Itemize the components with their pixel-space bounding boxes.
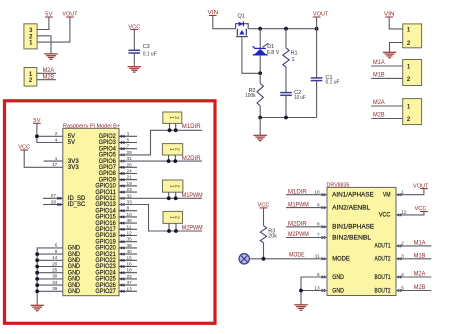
GPIO pin numbers bbox=[127, 131, 133, 291]
svg-text:GND: GND bbox=[68, 264, 81, 270]
svg-text:24: 24 bbox=[127, 169, 133, 174]
svg-text:8: 8 bbox=[317, 222, 320, 227]
svg-text:GND: GND bbox=[68, 277, 81, 283]
svg-text:GPIO13: GPIO13 bbox=[95, 202, 116, 208]
svg-text:3: 3 bbox=[401, 254, 404, 259]
svg-text:GPIO6: GPIO6 bbox=[99, 159, 117, 165]
svg-text:1: 1 bbox=[292, 57, 295, 63]
ground under VIN connector bbox=[383, 51, 397, 53]
svg-text:31: 31 bbox=[127, 156, 133, 161]
svg-text:16: 16 bbox=[127, 262, 133, 267]
wire GND pin stub bbox=[37, 266, 63, 268]
node junction bottom rail at R2 bbox=[258, 116, 262, 120]
svg-text:37: 37 bbox=[127, 280, 133, 285]
svg-text:MODE: MODE bbox=[289, 252, 305, 259]
wire connector pin 2 to ground bbox=[390, 43, 403, 53]
svg-text:25: 25 bbox=[52, 268, 58, 273]
transistor Q1 (P-MOSFET) bbox=[236, 21, 249, 36]
node junction GND bus bbox=[35, 277, 39, 281]
wire GND pin stub bbox=[37, 290, 63, 292]
node junction top rail at C1/VOUT bbox=[315, 27, 319, 31]
svg-text:AIN1/APHASE: AIN1/APHASE bbox=[332, 193, 374, 199]
svg-text:ID_SC: ID_SC bbox=[68, 202, 86, 208]
svg-text:15: 15 bbox=[127, 255, 133, 260]
capacitor C1 0.1uF bbox=[316, 29, 318, 78]
svg-text:6: 6 bbox=[55, 243, 58, 248]
svg-text:13: 13 bbox=[314, 285, 320, 290]
svg-text:1: 1 bbox=[168, 216, 174, 219]
svg-text:C3: C3 bbox=[143, 44, 150, 50]
node junction R3/MODE bbox=[262, 257, 266, 261]
svg-text:M1B: M1B bbox=[373, 71, 385, 78]
svg-text:GND: GND bbox=[68, 258, 81, 264]
svg-text:30: 30 bbox=[52, 274, 58, 279]
svg-text:27: 27 bbox=[51, 193, 57, 198]
svg-text:GPIO22: GPIO22 bbox=[95, 258, 116, 264]
jumper M1DIR pin wires bbox=[169, 123, 171, 130]
svg-text:AOUT1: AOUT1 bbox=[375, 244, 392, 250]
svg-text:GPIO9: GPIO9 bbox=[99, 177, 117, 183]
svg-text:M2DIR: M2DIR bbox=[182, 155, 201, 162]
svg-text:10: 10 bbox=[314, 190, 320, 195]
svg-text:14: 14 bbox=[52, 255, 58, 260]
svg-text:11: 11 bbox=[315, 254, 320, 259]
svg-text:M1A: M1A bbox=[414, 240, 426, 247]
wire net M2A to connector bbox=[371, 105, 403, 107]
ground under C3 bbox=[128, 66, 142, 68]
svg-text:5V: 5V bbox=[68, 134, 75, 140]
svg-text:2: 2 bbox=[174, 216, 180, 219]
svg-text:GPIO3: GPIO3 bbox=[99, 140, 117, 146]
GPIO pin stubs with direction arrows bbox=[119, 135, 137, 293]
svg-text:9: 9 bbox=[55, 249, 58, 254]
DRV8835 left pin numbers bbox=[314, 190, 320, 291]
op-amp U1 DRV8835 motor driver IC bbox=[327, 187, 396, 295]
svg-text:5: 5 bbox=[127, 138, 130, 143]
svg-text:GPIO21: GPIO21 bbox=[95, 252, 116, 258]
wire Q1 gate bbox=[242, 37, 260, 73]
wire GPIO5 to M1DIR bbox=[119, 130, 202, 155]
svg-text:1: 1 bbox=[168, 185, 174, 188]
svg-text:M1DIR: M1DIR bbox=[288, 188, 307, 195]
svg-text:GPIO23: GPIO23 bbox=[95, 264, 116, 270]
svg-text:MODE: MODE bbox=[332, 257, 350, 263]
wire 5V to pins 2 and 4 bbox=[37, 123, 63, 142]
svg-text:GPIO10: GPIO10 bbox=[95, 184, 116, 190]
node junction gate/D1/R2 bbox=[258, 71, 262, 75]
wire MODE net bbox=[249, 258, 327, 260]
svg-text:9: 9 bbox=[317, 202, 320, 207]
jumper M2DIR pin wires bbox=[168, 155, 170, 161]
svg-text:GPIO14: GPIO14 bbox=[95, 208, 116, 214]
svg-text:BIN1/BPHASE: BIN1/BPHASE bbox=[332, 225, 374, 231]
wire GPIO13 to M2PWM bbox=[119, 205, 202, 232]
svg-text:21: 21 bbox=[127, 175, 133, 180]
svg-text:40: 40 bbox=[127, 249, 133, 254]
svg-text:5: 5 bbox=[401, 285, 404, 290]
wire net M1DIR into DRV8835 bbox=[286, 194, 327, 196]
svg-text:M1PWM: M1PWM bbox=[288, 202, 309, 209]
wire Q1 drain rail to VOUT bbox=[248, 28, 316, 30]
wire DRV8835 GND pins to ground bbox=[301, 277, 327, 305]
svg-text:2: 2 bbox=[173, 116, 179, 119]
svg-text:GPIO8: GPIO8 bbox=[99, 171, 117, 177]
DRV8835 right pin names bbox=[375, 193, 392, 295]
svg-text:GND: GND bbox=[332, 288, 344, 294]
svg-text:M2B: M2B bbox=[43, 74, 55, 81]
svg-text:VCC: VCC bbox=[379, 213, 391, 219]
svg-text:3V3: 3V3 bbox=[68, 165, 80, 171]
DRV8835 right pin numbers bbox=[401, 190, 407, 291]
svg-text:AIN2/AENBL: AIN2/AENBL bbox=[332, 205, 371, 211]
RPi left pin names bbox=[68, 134, 86, 295]
svg-text:GPIO17: GPIO17 bbox=[95, 227, 116, 233]
wire bottom rail of Q1 circuit bbox=[260, 117, 316, 119]
svg-text:M1PWM: M1PWM bbox=[182, 192, 203, 199]
svg-text:18: 18 bbox=[127, 268, 133, 273]
svg-text:13: 13 bbox=[127, 286, 133, 291]
wire GND pin stub bbox=[37, 259, 63, 261]
svg-text:Raspberry Pi Model B+: Raspberry Pi Model B+ bbox=[63, 123, 121, 129]
node junction top rail at D1 bbox=[258, 27, 262, 31]
node junction GND bus bbox=[35, 271, 39, 275]
svg-text:11: 11 bbox=[127, 224, 132, 229]
svg-text:20: 20 bbox=[52, 261, 58, 266]
svg-text:M2A: M2A bbox=[373, 99, 385, 106]
diode D1 zener 6.8V bbox=[253, 29, 269, 74]
ground under GND bus bbox=[30, 304, 44, 306]
svg-text:M2A: M2A bbox=[414, 271, 426, 278]
svg-text:4: 4 bbox=[55, 137, 58, 142]
wire VCC to C3 bbox=[133, 30, 135, 51]
red highlight box around Raspberry Pi section bbox=[5, 101, 216, 323]
svg-text:GPIO5: GPIO5 bbox=[99, 153, 117, 159]
svg-text:GPIO2: GPIO2 bbox=[99, 134, 117, 140]
svg-text:GND: GND bbox=[68, 252, 81, 258]
node junction top rail at R1 bbox=[284, 27, 288, 31]
svg-text:39: 39 bbox=[52, 286, 58, 291]
svg-text:GPIO16: GPIO16 bbox=[95, 221, 116, 227]
svg-text:GPIO7: GPIO7 bbox=[99, 165, 117, 171]
test point circle-X on MODE net bbox=[239, 254, 249, 264]
wire net M1B to connector bbox=[371, 77, 403, 79]
jumper block M2DIR bbox=[162, 144, 182, 155]
svg-text:GPIO24: GPIO24 bbox=[95, 270, 116, 276]
svg-text:M2B: M2B bbox=[414, 284, 426, 291]
wire pin 2 to ground bbox=[37, 36, 51, 54]
node junctions under jumper M1PWM bbox=[167, 196, 171, 200]
svg-text:GPIO15: GPIO15 bbox=[95, 215, 116, 221]
wire net M1B from DRV8835 bbox=[396, 258, 431, 260]
wire VCC to pin 17 bbox=[24, 150, 63, 167]
svg-text:BOUT2: BOUT2 bbox=[375, 288, 392, 294]
svg-text:GND: GND bbox=[332, 275, 344, 281]
jumper M1PWM pin wires bbox=[168, 192, 170, 198]
ground under 3-pin connector bbox=[44, 53, 58, 55]
wire net M1PWM into DRV8835 bbox=[286, 207, 327, 209]
svg-text:R1: R1 bbox=[291, 50, 298, 56]
node junction bottom rail at C2 bbox=[284, 116, 288, 120]
svg-text:2: 2 bbox=[401, 241, 404, 246]
wire C3 to ground bbox=[133, 53, 135, 66]
connector M2 output header (left) bbox=[24, 68, 37, 87]
svg-text:6: 6 bbox=[317, 272, 320, 277]
svg-text:4: 4 bbox=[401, 272, 404, 277]
svg-text:GND: GND bbox=[68, 289, 81, 295]
wire VM to VOUT bbox=[396, 189, 424, 195]
node junction GND bus bbox=[35, 289, 39, 293]
jumper block M1PWM bbox=[163, 180, 183, 192]
RPi GND pin numbers bbox=[52, 243, 58, 291]
svg-text:23: 23 bbox=[127, 187, 133, 192]
svg-text:GPIO11: GPIO11 bbox=[95, 190, 116, 196]
svg-text:VM: VM bbox=[383, 193, 391, 199]
svg-text:26: 26 bbox=[127, 162, 133, 167]
wire net M1A from DRV8835 bbox=[396, 245, 431, 247]
wire VCC pin bbox=[396, 212, 424, 215]
svg-text:DRV8835: DRV8835 bbox=[327, 182, 351, 188]
svg-text:GPIO18: GPIO18 bbox=[95, 233, 116, 239]
wire net M2A (left connector pin 1) bbox=[37, 72, 56, 74]
svg-text:BOUT1: BOUT1 bbox=[375, 275, 392, 281]
node junction 5V bus bbox=[35, 134, 39, 138]
svg-text:Q1: Q1 bbox=[238, 14, 245, 20]
svg-text:36: 36 bbox=[127, 218, 133, 223]
wire VIN to connector pin 1 bbox=[389, 17, 403, 29]
svg-text:12: 12 bbox=[401, 210, 407, 215]
svg-text:28: 28 bbox=[51, 199, 57, 204]
svg-text:GPIO25: GPIO25 bbox=[95, 277, 116, 283]
pin stub ID_SD bbox=[43, 197, 63, 199]
svg-text:35: 35 bbox=[127, 237, 133, 242]
pin 1 stub 3V3 bbox=[44, 160, 63, 162]
wire VOUT stub bbox=[316, 17, 318, 29]
connector 3-pin power header bbox=[24, 24, 37, 49]
node junction DRV GND bbox=[299, 289, 303, 293]
svg-text:22: 22 bbox=[127, 274, 133, 279]
DRV8835 pin direction arrows bbox=[322, 193, 402, 292]
svg-text:100k: 100k bbox=[245, 93, 256, 99]
RPi GPIO pin names bbox=[95, 134, 116, 295]
svg-text:1: 1 bbox=[168, 148, 174, 151]
svg-text:2: 2 bbox=[173, 148, 179, 151]
ground under DRV8835 bbox=[294, 304, 308, 306]
connector M1 output header bbox=[403, 60, 422, 86]
svg-text:20k: 20k bbox=[268, 233, 277, 239]
svg-text:10: 10 bbox=[127, 212, 133, 217]
svg-text:M2B: M2B bbox=[373, 111, 385, 118]
wire GND pin stub bbox=[37, 253, 63, 255]
svg-text:ID_SD: ID_SD bbox=[68, 196, 86, 202]
wire VIN to Q1 source bbox=[213, 15, 236, 28]
svg-text:7: 7 bbox=[317, 232, 320, 237]
svg-text:D1: D1 bbox=[267, 44, 274, 50]
svg-text:GPIO26: GPIO26 bbox=[95, 283, 116, 289]
svg-text:GPIO27: GPIO27 bbox=[95, 289, 116, 295]
resistor R2 100k bbox=[259, 73, 261, 83]
svg-text:38: 38 bbox=[127, 243, 133, 248]
svg-text:2: 2 bbox=[174, 185, 180, 188]
svg-text:3: 3 bbox=[127, 131, 130, 136]
svg-text:GPIO20: GPIO20 bbox=[95, 246, 116, 252]
node junction GND bus bbox=[35, 283, 39, 287]
svg-text:33: 33 bbox=[127, 200, 133, 205]
svg-text:BIN2/BENBL: BIN2/BENBL bbox=[332, 235, 372, 241]
svg-text:7: 7 bbox=[127, 144, 130, 149]
node junctions under jumper M2PWM bbox=[167, 229, 171, 233]
node junction GND bus bbox=[35, 265, 39, 269]
svg-text:6.8 V: 6.8 V bbox=[267, 50, 280, 56]
svg-text:0.1 uF: 0.1 uF bbox=[326, 80, 341, 86]
svg-text:12: 12 bbox=[127, 231, 133, 236]
svg-text:10 uF: 10 uF bbox=[294, 95, 306, 101]
svg-text:M2PWM: M2PWM bbox=[288, 231, 309, 238]
wire GND bus left of RPi bbox=[37, 248, 63, 305]
svg-text:3V3: 3V3 bbox=[68, 159, 80, 165]
svg-text:AOUT2: AOUT2 bbox=[375, 257, 392, 263]
connector M2 output header (right) bbox=[403, 99, 422, 125]
wire net M2B from DRV8835 bbox=[396, 290, 431, 292]
wire GND pin stub bbox=[37, 272, 63, 274]
wire net M1A to connector bbox=[371, 65, 403, 67]
wire net M2B to connector bbox=[371, 118, 403, 120]
svg-text:29: 29 bbox=[127, 150, 133, 155]
ground under Q1 circuit bbox=[253, 134, 267, 136]
svg-text:GND: GND bbox=[68, 246, 81, 252]
node junctions under jumper M1DIR bbox=[168, 128, 172, 132]
jumper M2PWM pin wires bbox=[168, 223, 170, 231]
svg-text:GND: GND bbox=[68, 283, 81, 289]
capacitor C3 bbox=[129, 49, 141, 51]
svg-text:GPIO19: GPIO19 bbox=[95, 239, 116, 245]
svg-text:1: 1 bbox=[168, 116, 174, 119]
svg-text:M2DIR: M2DIR bbox=[288, 220, 307, 227]
resistor R3 20k bbox=[263, 208, 265, 226]
svg-text:M2PWM: M2PWM bbox=[182, 225, 203, 232]
svg-text:GND: GND bbox=[68, 270, 81, 276]
svg-text:8: 8 bbox=[127, 206, 130, 211]
node junction GND bus bbox=[35, 252, 39, 256]
wire net M2DIR into DRV8835 bbox=[286, 226, 327, 228]
svg-text:32: 32 bbox=[127, 193, 133, 198]
wire GND pin stub bbox=[37, 284, 63, 286]
wire GPIO6 to M2DIR bbox=[119, 160, 202, 162]
svg-text:M1A: M1A bbox=[373, 59, 385, 66]
connector VIN 2-pin header bbox=[403, 24, 422, 48]
wire GPIO12 to M1PWM bbox=[119, 197, 202, 199]
capacitor C2 10uF bbox=[280, 92, 292, 94]
wire net M2A from DRV8835 bbox=[396, 276, 431, 278]
svg-text:2: 2 bbox=[55, 131, 58, 136]
pin stub ID_SC bbox=[43, 204, 63, 206]
node junction GND bus bbox=[35, 258, 39, 262]
svg-text:M1B: M1B bbox=[414, 253, 426, 260]
svg-text:0.1 uF: 0.1 uF bbox=[143, 52, 158, 58]
resistor R1 1 ohm bbox=[285, 29, 287, 48]
wire VOUT to pin 1 bbox=[37, 17, 70, 42]
svg-text:1: 1 bbox=[55, 156, 58, 161]
svg-text:M1DIR: M1DIR bbox=[182, 123, 201, 130]
jumper block M1DIR bbox=[163, 112, 182, 123]
svg-text:17: 17 bbox=[52, 162, 58, 167]
wire net M2B (left connector pin 2) bbox=[37, 79, 56, 81]
wire R2 to ground bbox=[259, 118, 261, 136]
Raspberry Pi Model B+ header symbol bbox=[63, 128, 119, 295]
svg-text:19: 19 bbox=[127, 181, 133, 186]
jumper block M2PWM bbox=[163, 211, 183, 223]
DRV8835 left pin names bbox=[332, 193, 374, 295]
svg-text:GPIO12: GPIO12 bbox=[95, 196, 116, 202]
wire net M2PWM into DRV8835 bbox=[286, 237, 327, 239]
svg-text:34: 34 bbox=[52, 280, 58, 285]
svg-text:5V: 5V bbox=[68, 140, 75, 146]
svg-text:GPIO4: GPIO4 bbox=[99, 146, 117, 152]
node junctions under jumper M2DIR bbox=[167, 159, 171, 163]
wire 5V to pin 3 bbox=[37, 17, 49, 30]
svg-text:1: 1 bbox=[401, 190, 404, 195]
wire GND pin stub bbox=[37, 278, 63, 280]
